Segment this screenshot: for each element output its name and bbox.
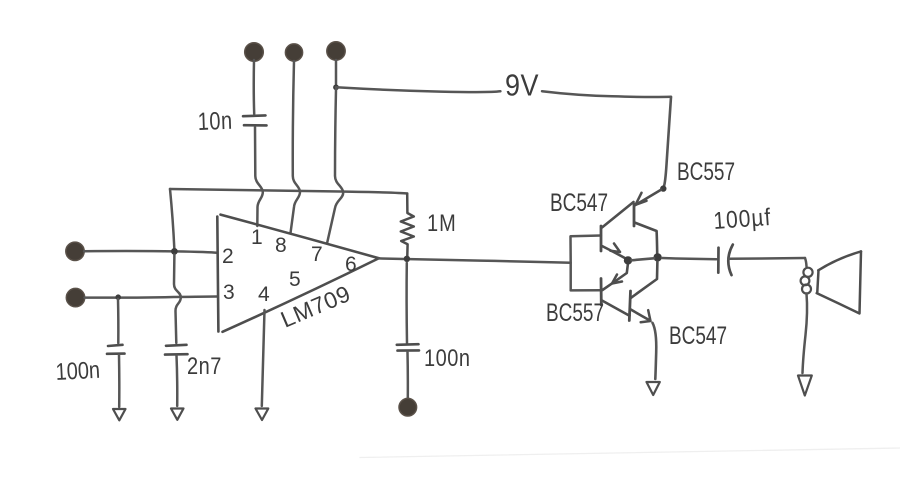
wire C2 to ground	[118, 355, 121, 407]
capacitor C3 2n7	[165, 345, 188, 355]
svg-text:BC557: BC557	[677, 158, 735, 186]
junction dot on lower input	[115, 294, 121, 300]
resistor R1 1M	[401, 194, 414, 257]
wire C4 down to terminal	[406, 352, 409, 399]
capacitor C5 100uF	[718, 245, 733, 276]
capacitor C1 10n	[243, 115, 267, 125]
svg-text:3: 3	[223, 281, 235, 304]
wire op-amp pin 4 to ground	[262, 310, 265, 406]
junction dot on upper input	[171, 248, 178, 255]
svg-text:5: 5	[289, 268, 301, 291]
svg-text:100n: 100n	[424, 344, 470, 371]
svg-text:9V: 9V	[505, 69, 539, 103]
capacitor C4 100n	[397, 344, 419, 350]
wire 9V rail right segment	[542, 91, 671, 97]
wire top rail above op-amp	[170, 189, 407, 194]
junction dot at Q3 emitter	[660, 185, 666, 191]
svg-text:6: 6	[345, 253, 357, 276]
wire TP1 to capacitor C1	[252, 60, 255, 114]
ground symbol G4	[647, 382, 660, 395]
wire junction to op-amp pin 7 (hops over rail)	[327, 90, 343, 244]
terminal post TP1 (top left)	[245, 43, 264, 62]
wire TP3 down to junction	[335, 60, 338, 84]
transistor Q3 BC557 (upper right)	[634, 190, 661, 254]
terminal post TP2	[285, 44, 302, 61]
wire speaker to ground	[803, 294, 808, 374]
svg-text:8: 8	[275, 234, 287, 257]
speaker LS1 voice-coil squiggle	[801, 268, 813, 294]
terminal post TP3	[327, 42, 345, 60]
wire C5 to speaker	[728, 257, 805, 260]
wire upper input to op-amp pin 2	[84, 251, 217, 253]
wire op-amp output to transistors	[379, 258, 571, 262]
capacitor C2 100n	[107, 345, 125, 354]
wire lower input junction down to capacitor C2	[117, 299, 120, 343]
svg-text:BC557: BC557	[546, 299, 604, 327]
wire emitter node to collector node	[632, 258, 655, 260]
wire C3 to ground	[175, 356, 178, 407]
svg-text:2n7: 2n7	[187, 352, 222, 379]
svg-text:100µf: 100µf	[713, 204, 773, 235]
svg-text:4: 4	[258, 283, 270, 306]
wire output node down to capacitor C4	[405, 263, 408, 343]
transistor Q4 BC547 (lower right)	[629, 262, 657, 323]
terminal post TPin2 (lower input)	[66, 288, 84, 306]
svg-text:7: 7	[311, 243, 323, 266]
ground symbol G3	[256, 409, 269, 421]
faint scanner streak at bottom	[360, 448, 900, 458]
op-amp U1 LM709 triangle	[217, 215, 379, 332]
svg-text:1M: 1M	[427, 209, 457, 236]
wire down to speaker coil	[805, 258, 807, 267]
wire base bracket of left transistor pair	[571, 236, 602, 291]
terminal post TP4	[399, 398, 417, 416]
wire lower input to op-amp pin 3	[85, 297, 218, 298]
svg-text:BC547: BC547	[550, 189, 608, 217]
junction dot at right collectors	[653, 253, 661, 261]
svg-text:BC547: BC547	[669, 322, 727, 350]
wire C1 to op-amp pin 1 (hops over rail)	[255, 127, 263, 226]
wire 9V rail drop to Q3 emitter node	[664, 97, 671, 186]
svg-text:100n: 100n	[55, 356, 101, 385]
svg-text:2: 2	[222, 245, 234, 268]
transistor Q1 BC547 (upper left)	[601, 202, 634, 260]
wire junction down to capacitor C3 (hops over lower input wire)	[174, 255, 181, 344]
wire 9V rail left segment	[336, 87, 500, 92]
junction dot at push-pull emitters	[624, 256, 632, 264]
ground symbol G1	[171, 409, 184, 420]
svg-text:1: 1	[251, 226, 263, 249]
ground symbol G2	[113, 409, 126, 420]
speaker LS1 horn	[817, 251, 861, 313]
junction dot on 9V feed	[333, 84, 339, 90]
wire Q4 emitter to ground	[653, 323, 657, 379]
wire collector node to capacitor C5	[662, 258, 717, 259]
wire TP2 to op-amp pin 8 (hops over rail)	[291, 61, 301, 233]
transistor Q2 BC557 (lower left)	[601, 263, 630, 316]
ground symbol G5	[798, 376, 812, 396]
terminal post TPin1 (upper input)	[66, 242, 84, 260]
wire rail left end down to input junction	[170, 189, 174, 248]
junction dot at op-amp output	[404, 256, 410, 262]
svg-text:10n: 10n	[197, 107, 233, 136]
